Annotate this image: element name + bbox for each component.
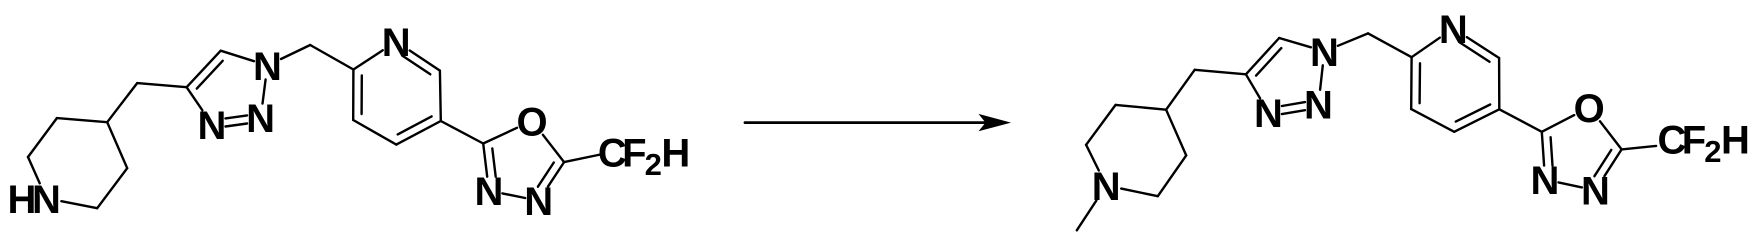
svg-text:N: N bbox=[32, 178, 61, 222]
double bond triazole C4=C5 bbox=[187, 51, 221, 87]
bond triazole C5-N1 bbox=[221, 51, 254, 62]
svg-text:O: O bbox=[516, 100, 547, 144]
bond triazole N1-N2 bbox=[263, 80, 266, 104]
bond piperidine N1-C6 bbox=[28, 157, 40, 183]
bond triazole N1-N2 bbox=[1320, 65, 1323, 90]
double bond pyridine C6=N1 bbox=[410, 51, 440, 71]
double bond oxadiazole N4=C5 bbox=[548, 162, 564, 187]
double bond triazole C4=C5 bbox=[1246, 38, 1279, 74]
svg-text:N: N bbox=[474, 170, 503, 214]
bond triazole C5-N1 bbox=[1279, 38, 1311, 47]
bond piperidine C6-C5 bbox=[1086, 105, 1116, 145]
svg-text:N: N bbox=[253, 45, 282, 89]
double bond pyridine C6=N1 bbox=[1467, 37, 1499, 58]
bond oxadiazole C5-O1 bbox=[543, 135, 564, 162]
bond oxadiazole C5-CHF2 bbox=[564, 155, 600, 163]
bond piperidine C3-C2 bbox=[97, 168, 127, 208]
bond pyridine C3-C4 bbox=[353, 120, 396, 145]
bond CH2-triazole C4 bbox=[137, 83, 186, 87]
bond CH2-triazole C4 bbox=[1195, 70, 1246, 75]
bond piperidine N1-CH3 (N-methyl) bbox=[1077, 201, 1097, 231]
bond pyridine C5-oxadiazole C2 bbox=[1499, 109, 1542, 132]
svg-text:N: N bbox=[1310, 31, 1339, 75]
double bond pyridine C2=C3 bbox=[1410, 57, 1413, 109]
bond piperidine C5-C4 bbox=[57, 118, 107, 122]
bond pyridine C5-oxadiazole C2 bbox=[441, 121, 483, 144]
bond triazole N1-CH2 linker bbox=[1338, 33, 1368, 45]
svg-text:H: H bbox=[661, 131, 690, 175]
svg-text:N: N bbox=[1581, 170, 1610, 214]
reaction arrow bbox=[745, 114, 1011, 131]
bond CH2-pyridine C2 bbox=[310, 45, 353, 70]
bond oxadiazole N3-N4 bbox=[502, 193, 525, 198]
bond CH2-pyridine C2 bbox=[1368, 33, 1412, 57]
bond oxadiazole N3-N4 bbox=[1559, 182, 1582, 187]
svg-text:F: F bbox=[622, 131, 646, 175]
svg-text:2: 2 bbox=[1704, 134, 1721, 169]
svg-text:H: H bbox=[1721, 118, 1750, 162]
bond piperidine N1-C6 bbox=[1086, 145, 1099, 171]
bond oxadiazole C5-O1 bbox=[1600, 121, 1622, 149]
bond triazole N1-CH2 linker bbox=[281, 45, 310, 59]
bond piperidine C2-N1 bbox=[1121, 189, 1158, 197]
right (product, piperidine N-CH3) molecule bbox=[1077, 8, 1750, 231]
svg-text:N: N bbox=[246, 97, 275, 141]
svg-text:N: N bbox=[382, 21, 411, 65]
bond piperidine C5-C4 bbox=[1116, 105, 1167, 110]
bond pyridine N1-C2 bbox=[353, 50, 382, 69]
double bond oxadiazole C2=N3 bbox=[483, 144, 487, 177]
bond triazole N3-C4 bbox=[187, 87, 203, 110]
double bond triazole N2=N3 bbox=[226, 124, 248, 127]
svg-text:N: N bbox=[1439, 8, 1468, 52]
svg-text:2: 2 bbox=[645, 147, 662, 182]
double bond oxadiazole C2=N3 bbox=[1542, 132, 1544, 166]
double bond pyridine C4=C5 bbox=[1454, 109, 1499, 132]
svg-text:N: N bbox=[524, 180, 553, 224]
bond pyridine N1-C2 bbox=[1412, 38, 1440, 58]
svg-text:N: N bbox=[1254, 92, 1283, 136]
double bond triazole N2=N3 bbox=[1282, 110, 1305, 114]
svg-text:N: N bbox=[1304, 83, 1333, 127]
bond pyridine C5-C6 bbox=[439, 71, 442, 121]
bond piperidine C4-C3 bbox=[107, 122, 127, 168]
svg-text:O: O bbox=[1574, 87, 1605, 131]
bond piperidine C4-CH2 linker bbox=[1166, 70, 1195, 110]
bond oxadiazole O1-C2 bbox=[1542, 115, 1574, 132]
double bond oxadiazole N4=C5 bbox=[1604, 149, 1621, 176]
svg-text:F: F bbox=[1682, 118, 1706, 162]
svg-text:N: N bbox=[1531, 159, 1560, 203]
bond piperidine C4-CH2 linker bbox=[107, 83, 137, 122]
bond pyridine C3-C4 bbox=[1411, 109, 1454, 132]
bond triazole N3-C4 bbox=[1246, 74, 1260, 98]
bond piperidine C3-C2 bbox=[1158, 155, 1186, 196]
left (starting material, piperidine N-H) molecule bbox=[8, 21, 691, 224]
bond oxadiazole C5-CHF2 bbox=[1622, 146, 1657, 150]
bond piperidine C6-C5 bbox=[28, 118, 57, 157]
bond piperidine C4-C3 bbox=[1166, 110, 1186, 156]
double bond pyridine C4=C5 bbox=[396, 121, 441, 145]
bond piperidine C2-N1 bbox=[61, 201, 97, 208]
bond pyridine C5-C6 bbox=[1498, 58, 1501, 109]
svg-text:N: N bbox=[198, 104, 227, 148]
double bond pyridine C2=C3 bbox=[352, 70, 355, 121]
bond oxadiazole O1-C2 bbox=[483, 128, 517, 144]
svg-text:N: N bbox=[1092, 165, 1121, 209]
